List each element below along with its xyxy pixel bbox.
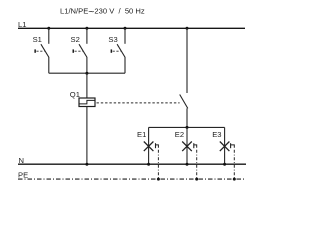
switch S3 [108, 28, 125, 73]
junction dot L1/S1 [47, 27, 50, 30]
junction dot L1/S3 [124, 27, 127, 30]
junction dot rail/contact [186, 126, 189, 129]
junction dot rail/coil feed [85, 72, 88, 75]
svg-text:N: N [19, 156, 24, 165]
svg-text:PE: PE [18, 171, 28, 180]
junction dot E3-PE [233, 178, 236, 181]
junction dot E2/N [186, 163, 189, 166]
svg-text:L1/N/PE~230 V / 50 Hz: L1/N/PE~230 V / 50 Hz [60, 6, 145, 18]
mechanical link (dashed) coil to contact [97, 102, 180, 104]
svg-text:S1: S1 [33, 35, 42, 44]
wire coil feed down to N [86, 73, 88, 164]
lamp E2 [175, 127, 197, 179]
svg-text:L1: L1 [18, 20, 26, 29]
wire lamp supply rail [149, 126, 225, 128]
wire PE rail (dash-dot) [18, 178, 245, 180]
svg-text:E2: E2 [175, 130, 184, 139]
wire L1 rail [18, 27, 245, 29]
junction dot E2-PE [195, 178, 198, 181]
relay coil Q1 (impulse relay) [70, 90, 95, 107]
svg-text:S3: S3 [108, 35, 117, 44]
junction dot E1/N [147, 163, 150, 166]
wire switch output rail [49, 72, 125, 74]
svg-text:E1: E1 [137, 130, 146, 139]
lamp E1 [137, 127, 158, 179]
svg-text:E3: E3 [212, 130, 221, 139]
junction dot coil/N [85, 163, 88, 166]
wire N rail [18, 163, 246, 165]
switch S1 [33, 28, 49, 73]
lamp E3 [212, 127, 234, 179]
junction dot E1-PE [157, 178, 160, 181]
junction dot L1/Q1-contact [186, 27, 189, 30]
contact Q1 (normally open) [180, 28, 188, 127]
junction dot E3/N [223, 163, 226, 166]
svg-text:S2: S2 [71, 35, 80, 44]
junction dot L1/S2 [85, 27, 88, 30]
switch S2 [71, 28, 88, 73]
